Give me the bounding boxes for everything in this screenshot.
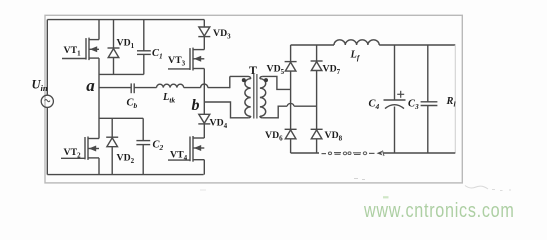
svg-text:www.cntronics.com: www.cntronics.com bbox=[363, 200, 514, 222]
svg-text:b: b bbox=[192, 97, 200, 114]
svg-text:a: a bbox=[86, 76, 95, 95]
svg-text:T: T bbox=[249, 63, 257, 77]
